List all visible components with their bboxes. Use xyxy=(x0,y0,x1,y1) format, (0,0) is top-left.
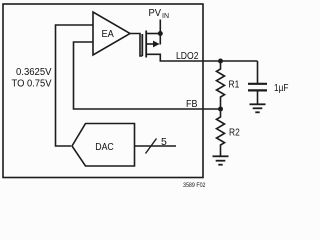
svg-text:3589 F02: 3589 F02 xyxy=(183,182,206,189)
svg-text:1µF: 1µF xyxy=(274,82,289,94)
svg-text:R1: R1 xyxy=(229,79,240,91)
svg-text:PV: PV xyxy=(149,7,162,19)
svg-text:FB: FB xyxy=(186,98,198,110)
svg-text:0.3625V: 0.3625V xyxy=(16,67,52,78)
svg-text:TO 0.75V: TO 0.75V xyxy=(12,79,52,90)
svg-text:DAC: DAC xyxy=(95,141,114,153)
svg-text:EA: EA xyxy=(102,28,114,40)
svg-text:LDO2: LDO2 xyxy=(176,50,199,62)
svg-text:IN: IN xyxy=(162,13,169,20)
svg-text:5: 5 xyxy=(161,136,167,148)
svg-text:R2: R2 xyxy=(229,127,240,139)
